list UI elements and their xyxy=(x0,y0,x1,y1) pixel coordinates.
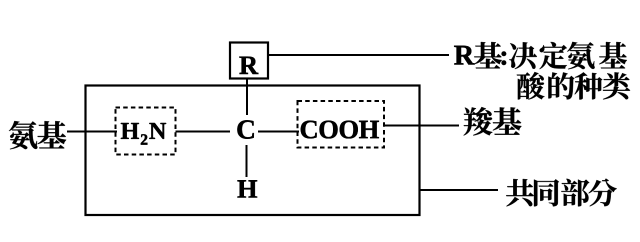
text COOH (carboxyl group) xyxy=(301,121,379,139)
label R-group line2 xyxy=(517,72,630,100)
label suoji (carboxyl) xyxy=(464,107,522,136)
box: common part outline xyxy=(86,86,420,216)
wire: H2N to C bond xyxy=(176,131,231,133)
box H2N dashed xyxy=(116,108,176,155)
box COOH dashed xyxy=(298,101,385,148)
text C (alpha carbon) xyxy=(237,120,253,138)
label R-group line1 xyxy=(454,42,627,69)
text H2N (amino group) xyxy=(121,123,166,145)
label aminoji (amino) xyxy=(9,121,66,149)
text R (in R box) xyxy=(239,57,258,74)
box R1 (R group) xyxy=(230,43,268,79)
label gongtongbufen (common part) xyxy=(506,179,616,207)
wire: C to H bond xyxy=(246,145,248,177)
wire: amino label to H2N xyxy=(67,131,117,133)
wire: C to COOH bond xyxy=(258,131,299,133)
text H (hydrogen) xyxy=(237,180,257,197)
wire: R box to label line xyxy=(268,54,449,56)
wire: box to common-part label xyxy=(420,189,498,191)
wire: R box to C bond xyxy=(246,79,248,116)
wire: COOH to carboxyl label xyxy=(384,125,459,127)
